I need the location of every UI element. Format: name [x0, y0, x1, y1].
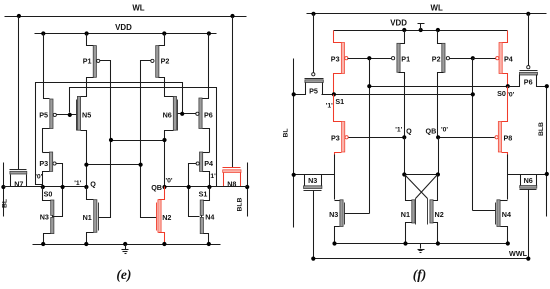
svg-text:QB: QB	[426, 127, 437, 136]
node line C right	[162, 138, 166, 142]
wire P3mid-N3v chain vertical (f)	[334, 155, 336, 200]
svg-text:S0: S0	[497, 89, 506, 98]
node VSS-N2	[162, 242, 166, 246]
node line D right	[139, 163, 143, 167]
node VDD-P5 junction	[41, 31, 45, 35]
wire BL bitline (f)	[293, 59, 295, 228]
svg-text:P6: P6	[524, 78, 533, 87]
svg-text:N4: N4	[205, 213, 214, 222]
node BL-N3h junction (f)	[292, 173, 296, 177]
wire N7 gate from WL	[18, 17, 20, 170]
svg-text:'1': '1'	[395, 126, 402, 133]
svg-text:'0': '0'	[441, 126, 448, 133]
transistor P2 (e)	[151, 34, 174, 97]
svg-text:P4: P4	[204, 159, 213, 168]
node QB	[162, 185, 166, 189]
svg-text:BL: BL	[283, 128, 290, 137]
svg-text:P1: P1	[401, 54, 410, 63]
svg-text:N1: N1	[401, 210, 410, 219]
transistor N3 vertical (f)	[329, 200, 369, 244]
node BLB junction	[245, 185, 249, 189]
node WL-left junction (e)	[17, 14, 21, 18]
transistor P4 (e)	[196, 152, 213, 187]
wire BLB bitline (e)	[247, 163, 249, 217]
svg-text:P5: P5	[309, 87, 318, 96]
wire VDD rail (e)	[35, 33, 217, 35]
node VSS-N1	[84, 242, 88, 246]
transistor N8 (access, red, e)	[211, 168, 248, 189]
transistor P1 (e)	[79, 34, 100, 97]
node WWL-right (f)	[526, 257, 530, 261]
wire P4 gate line	[473, 58, 496, 60]
node Q	[84, 185, 88, 189]
svg-text:'0': '0'	[165, 177, 172, 184]
transistor S0 (e)	[43, 187, 54, 216]
node VSS-N1 (f)	[403, 241, 407, 245]
transistor P4 (red, f)	[496, 31, 513, 87]
transistor N5 (e)	[77, 96, 92, 186]
wire P2 gate line	[450, 58, 473, 60]
svg-text:P1: P1	[83, 57, 92, 66]
svg-text:Q: Q	[406, 127, 412, 136]
node P5-N5 gate junction	[68, 113, 72, 117]
node BL junction	[1, 185, 5, 189]
svg-text:(f): (f)	[413, 267, 427, 282]
wire WL rail (e)	[5, 16, 247, 18]
transistor P1 (f)	[392, 31, 411, 138]
wire BL bitline (e)	[3, 163, 5, 217]
wire feedback line B (P5/N5 gates to '1' node)	[70, 88, 217, 187]
wire BLB bitline (f)	[546, 87, 548, 217]
wire VDD rail (f)	[334, 30, 508, 32]
power VDD tap symbol (f)	[418, 24, 425, 31]
node gate-tie junction right	[187, 185, 191, 189]
svg-text:WL: WL	[431, 4, 443, 13]
wire cross X left (Q to N2 gate)	[405, 175, 428, 199]
transistor N2 (f)	[428, 175, 444, 244]
svg-text:P3: P3	[39, 159, 48, 168]
node line C left	[109, 138, 113, 142]
transistor N6 (e)	[163, 96, 178, 186]
wire latch top link (f)	[405, 174, 438, 176]
wire feedback line A ('0' node to N6/P6 gates)	[36, 83, 183, 187]
svg-text:VDD: VDD	[390, 19, 407, 28]
node S1-gate junction	[471, 92, 475, 96]
node QB (f)	[436, 135, 440, 139]
wire WWL rail (f)	[314, 258, 529, 260]
node VSS-N3v (f)	[332, 241, 336, 245]
wire P8-N4 chain vertical (f)	[507, 155, 509, 200]
svg-text:N1: N1	[83, 213, 92, 222]
ground symbol (e)	[122, 245, 129, 254]
wire N6/P6 gate tie	[178, 113, 196, 115]
svg-text:N3: N3	[40, 213, 49, 222]
svg-text:P3: P3	[331, 54, 340, 63]
wire S0 line (f)	[370, 86, 508, 88]
svg-text:S0: S0	[44, 190, 53, 199]
wire cross X right (QB to N1 gate)	[416, 175, 438, 199]
svg-text:N5: N5	[82, 111, 91, 120]
wire P3/S0/N3 gate tie to node	[53, 164, 63, 217]
wire cross line D (Q to P2/N2 gates)	[87, 164, 141, 166]
svg-text:'1': '1'	[209, 173, 216, 180]
wire QB drop to latch (f)	[438, 138, 440, 175]
svg-text:BLB: BLB	[237, 197, 244, 211]
svg-text:(e): (e)	[116, 267, 131, 282]
transistor S1 (e)	[200, 187, 209, 216]
node VDD-P1 junction	[85, 31, 89, 35]
node latch-left (f)	[402, 172, 406, 176]
node N6-P6 gate junction	[180, 112, 184, 116]
svg-text:P8: P8	[504, 133, 513, 142]
svg-text:P3: P3	[331, 133, 340, 142]
node WL-P5 (f)	[311, 12, 315, 16]
wire N8 gate from WL	[232, 17, 234, 168]
svg-text:S1: S1	[199, 190, 208, 199]
svg-text:'0': '0'	[507, 92, 514, 99]
transistor N1 (e)	[83, 187, 99, 245]
wire S1-to-gates vertical (f)	[472, 59, 474, 211]
wire WL rail (f)	[307, 13, 547, 15]
svg-text:N4: N4	[502, 210, 511, 219]
node BLB-N6h junction (f)	[545, 172, 549, 176]
svg-text:P2: P2	[432, 54, 441, 63]
transistor N3 (e)	[40, 213, 54, 245]
node Q (f)	[402, 135, 406, 139]
wire Q drop to latch (f)	[404, 138, 406, 175]
node line D left	[84, 163, 88, 167]
svg-text:P6: P6	[204, 111, 213, 120]
node VDD-P2 (f)	[436, 28, 440, 32]
svg-text:QB: QB	[151, 183, 162, 192]
svg-text:WWL: WWL	[509, 249, 528, 258]
wire S1 line (f)	[322, 94, 473, 96]
svg-text:N6: N6	[163, 111, 172, 120]
node latch-right (f)	[436, 172, 440, 176]
transistor P6 (access, f)	[508, 14, 547, 87]
wire P1 gate to cross-coupling	[99, 61, 111, 218]
node VDD-P6 junction	[207, 31, 211, 35]
wire node line f-right (N6h to chain)	[508, 174, 547, 176]
wire P5/N5 gate tie	[57, 114, 77, 116]
transistor N7 (access, e)	[10, 170, 27, 189]
svg-text:BLB: BLB	[538, 122, 545, 136]
wire P1 gate line	[370, 58, 392, 60]
svg-text:N3: N3	[308, 176, 317, 185]
transistor P2 (f)	[432, 31, 450, 138]
wire P2 gate to cross-coupling	[141, 61, 157, 218]
node '0' junction (P3 drain / S0)	[41, 185, 45, 189]
transistor P3 top (red, f)	[331, 31, 348, 95]
wire P3top gate line	[348, 58, 370, 60]
transistor P5 (e)	[39, 34, 56, 153]
wire cross line C (QB to P1/N1 gates)	[111, 140, 165, 142]
wire storage node line left (S0/Q)	[4, 186, 87, 188]
ground symbol (f)	[418, 244, 425, 253]
wire P3mid gate to Q	[349, 137, 405, 139]
node VSS-N4	[207, 242, 211, 246]
node P1/P3 gate tie	[367, 56, 371, 60]
transistor N4 (e)	[200, 213, 214, 245]
svg-text:'0': '0'	[35, 173, 42, 180]
node S0-P4 junction	[506, 84, 510, 88]
node VSS-N2 (f)	[436, 241, 440, 245]
transistor N6 horizontal (access, f)	[520, 175, 537, 259]
svg-text:P5: P5	[39, 111, 48, 120]
svg-text:N2: N2	[162, 213, 171, 222]
transistor P5 (access, f)	[294, 14, 324, 96]
node WL-P6 (f)	[526, 12, 530, 16]
svg-text:'1': '1'	[74, 180, 81, 187]
transistor N4 (f)	[473, 200, 512, 244]
svg-text:S1: S1	[335, 97, 344, 106]
node BL-P5 junction (f)	[292, 92, 296, 96]
svg-text:Q: Q	[90, 180, 96, 189]
wire storage node line right (S1/QB)	[165, 186, 248, 188]
svg-text:BL: BL	[1, 199, 8, 208]
node VSS-N4 (f)	[506, 241, 510, 245]
node gate-tie junction left	[61, 185, 65, 189]
node S1-P3 junction	[332, 92, 336, 96]
node VDD-P2 junction	[162, 31, 166, 35]
wire VSS rail (f)	[335, 243, 508, 245]
transistor P3 (e)	[39, 152, 56, 187]
transistor P6 (e)	[196, 34, 213, 153]
node VDD-tap (f)	[419, 28, 423, 32]
node BLB-P6 junction (f)	[545, 84, 549, 88]
wire node line f-left (N3h to chain)	[295, 174, 335, 176]
node VSS-ground	[123, 242, 127, 246]
node VSS-N3	[41, 242, 45, 246]
svg-text:N6: N6	[524, 176, 533, 185]
transistor N2 (red, e)	[157, 187, 172, 245]
wire P4/S1/N4 gate tie to node	[189, 164, 200, 217]
svg-text:N2: N2	[435, 210, 444, 219]
svg-text:VDD: VDD	[115, 23, 132, 32]
wire P8 gate to QB	[439, 137, 495, 139]
node WWL-left (f)	[311, 257, 315, 261]
svg-text:P2: P2	[161, 57, 170, 66]
node WL-right junction (e)	[230, 14, 234, 18]
svg-text:N3: N3	[329, 210, 338, 219]
node P2/P4 gate tie	[471, 56, 475, 60]
node S0-gate junction	[367, 84, 371, 88]
svg-text:WL: WL	[132, 4, 144, 13]
transistor N1 (f)	[401, 175, 416, 244]
transistor N3 horizontal (access, f)	[304, 175, 322, 259]
transistor P3 mid (red, f)	[331, 95, 348, 157]
node VDD-P1 (f)	[402, 28, 406, 32]
node '1' junction (P4 drain / S1)	[207, 185, 211, 189]
wire VSS rail (e)	[33, 244, 221, 246]
transistor P8 (red, f)	[495, 87, 512, 157]
svg-text:'1': '1'	[326, 103, 333, 110]
wire S0-to-gates vertical (f)	[369, 59, 371, 214]
svg-text:P4: P4	[504, 54, 513, 63]
